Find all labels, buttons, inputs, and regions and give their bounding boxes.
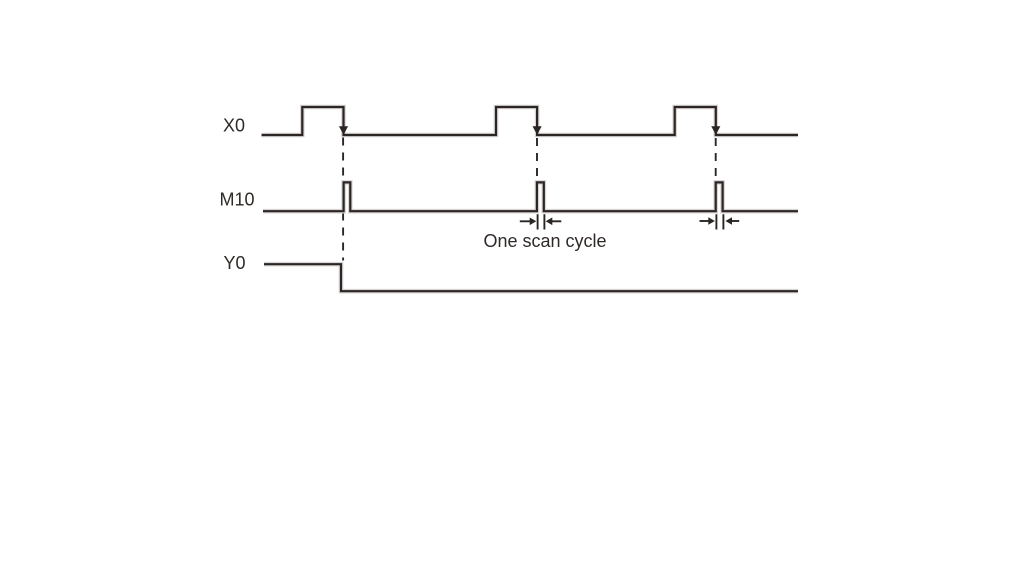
falling-edge arrow 3 on X0: [711, 126, 720, 135]
dashed line 1 from X0 fall to Y0: [342, 138, 344, 261]
wire X0 waveform: [262, 107, 799, 135]
svg-text:Y0: Y0: [224, 253, 246, 273]
svg-text:M10: M10: [220, 190, 255, 210]
scan cycle tick marks at third M10 pulse: [716, 214, 723, 229]
falling-edge arrow 2 on X0: [533, 126, 542, 135]
scan cycle right arrow at second M10 pulse: [546, 218, 562, 226]
scan cycle tick marks at second M10 pulse: [538, 214, 545, 229]
dashed line 3 from X0 fall to M10 pulse: [715, 138, 717, 181]
scan cycle left arrow at third M10 pulse: [700, 217, 715, 225]
wire M10 waveform: [263, 182, 798, 211]
dashed line 2 from X0 fall to M10 pulse: [536, 138, 538, 181]
scan cycle right arrow at third M10 pulse: [725, 217, 739, 225]
falling-edge arrow 1 on X0: [339, 126, 348, 135]
wire Y0 waveform: [264, 264, 798, 291]
scan cycle left arrow at second M10 pulse: [520, 218, 537, 226]
svg-text:X0: X0: [223, 116, 245, 136]
svg-text:One scan cycle: One scan cycle: [484, 231, 607, 251]
